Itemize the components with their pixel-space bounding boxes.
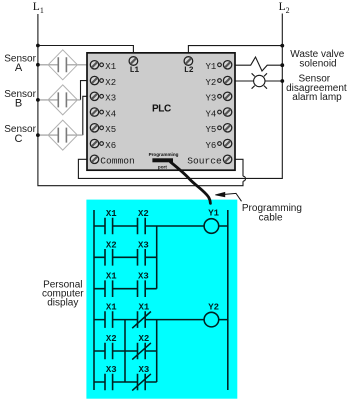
svg-text:display: display xyxy=(47,297,78,308)
svg-text:X1: X1 xyxy=(138,303,149,313)
svg-text:Y2: Y2 xyxy=(208,303,219,313)
svg-text:X2: X2 xyxy=(138,334,149,344)
svg-text:X3: X3 xyxy=(138,240,149,250)
svg-text:solenoid: solenoid xyxy=(299,59,336,70)
svg-text:B: B xyxy=(15,98,22,110)
svg-text:X3: X3 xyxy=(105,94,116,104)
svg-text:A: A xyxy=(15,62,23,74)
svg-text:Y6: Y6 xyxy=(205,141,216,151)
svg-text:X4: X4 xyxy=(105,109,116,119)
svg-text:Programming: Programming xyxy=(149,152,179,157)
svg-text:Common: Common xyxy=(100,155,135,166)
svg-text:L2: L2 xyxy=(184,66,194,75)
svg-text:X5: X5 xyxy=(105,125,116,135)
svg-text:C: C xyxy=(15,133,23,145)
svg-text:X2: X2 xyxy=(106,334,117,344)
svg-text:X1: X1 xyxy=(105,62,116,72)
svg-text:PLC: PLC xyxy=(152,104,171,115)
svg-text:X1: X1 xyxy=(106,272,117,282)
svg-text:Y1: Y1 xyxy=(208,208,219,218)
svg-text:Y1: Y1 xyxy=(205,62,216,72)
svg-text:X6: X6 xyxy=(105,141,116,151)
svg-text:X3: X3 xyxy=(106,365,117,375)
svg-text:X1: X1 xyxy=(106,209,117,219)
svg-text:Y5: Y5 xyxy=(205,125,216,135)
svg-text:X2: X2 xyxy=(138,209,149,219)
svg-text:Y4: Y4 xyxy=(205,109,216,119)
svg-text:L1: L1 xyxy=(130,66,140,75)
svg-text:X3: X3 xyxy=(138,272,149,282)
svg-text:Y2: Y2 xyxy=(205,78,216,88)
svg-text:port: port xyxy=(158,164,167,169)
svg-text:X1: X1 xyxy=(106,303,117,313)
svg-text:Y3: Y3 xyxy=(205,94,216,104)
svg-text:cable: cable xyxy=(259,212,283,223)
svg-text:X2: X2 xyxy=(105,78,116,88)
svg-text:Source: Source xyxy=(187,155,222,166)
svg-text:alarm lamp: alarm lamp xyxy=(292,92,342,103)
svg-text:X3: X3 xyxy=(138,365,149,375)
svg-text:X2: X2 xyxy=(106,240,117,250)
